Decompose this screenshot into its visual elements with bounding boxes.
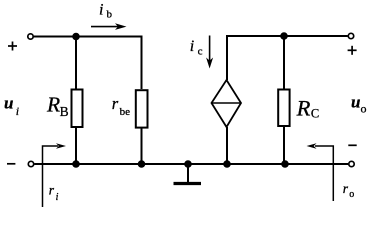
label r_i: [49, 182, 59, 203]
node B (top junction R_B): [72, 33, 80, 41]
label u_i: [4, 94, 19, 118]
node rail junction source bottom: [223, 160, 231, 168]
resistor r_be: [136, 90, 148, 127]
svg-text:o: o: [361, 102, 367, 116]
svg-text:u: u: [351, 93, 360, 112]
terminal input top: [28, 34, 33, 39]
resistor R_C: [278, 90, 289, 127]
svg-text:b: b: [107, 9, 113, 21]
svg-text:C: C: [311, 106, 319, 120]
label i_c: [190, 38, 203, 57]
wire diamond bottom lead: [226, 127, 228, 164]
dependent current source (diamond): [212, 80, 242, 127]
arrow r_i bracket: [43, 143, 67, 207]
svg-text:c: c: [198, 46, 203, 58]
node rail junction ground: [184, 160, 192, 168]
wire R_B bottom lead: [75, 128, 77, 165]
wire top-right rail: [227, 36, 348, 80]
terminal output top: [348, 33, 353, 38]
label r_be: [112, 94, 130, 118]
resistor R_B: [72, 90, 83, 128]
label r_o: [343, 181, 354, 200]
svg-text:r: r: [49, 182, 55, 197]
arrow i_c: [206, 36, 213, 69]
wire R_B top lead: [75, 37, 77, 89]
svg-text:r: r: [343, 181, 349, 196]
ground: [174, 164, 202, 184]
label - input: [7, 163, 15, 165]
svg-text:o: o: [349, 189, 354, 200]
svg-text:i: i: [190, 38, 194, 55]
label + output: [348, 46, 357, 55]
terminal input bottom: [28, 161, 33, 166]
label R_C: [296, 96, 320, 121]
label R_B: [46, 92, 69, 119]
svg-text:i: i: [99, 1, 103, 18]
node rail junction r_be bottom: [138, 160, 146, 168]
node rail junction R_B bottom: [72, 160, 80, 168]
label + input: [8, 42, 17, 51]
wire R_C top lead: [283, 36, 285, 89]
svg-text:r: r: [112, 94, 119, 113]
svg-text:i: i: [56, 192, 59, 203]
label - output: [348, 144, 356, 146]
svg-text:R: R: [46, 92, 60, 116]
svg-text:i: i: [16, 104, 19, 118]
wire top-left rail: [34, 37, 142, 90]
arrow r_o bracket: [307, 143, 334, 201]
wire r_be bottom lead: [141, 128, 143, 164]
svg-text:u: u: [4, 94, 13, 113]
svg-text:R: R: [296, 96, 311, 121]
svg-text:B: B: [60, 104, 69, 119]
wire R_C bottom lead: [283, 127, 285, 164]
label u_o: [351, 93, 367, 116]
node C (top junction R_C): [280, 32, 288, 40]
wire bottom rail: [34, 163, 348, 165]
terminal output bottom: [349, 161, 354, 166]
label i_b: [99, 1, 113, 20]
svg-text:be: be: [120, 106, 131, 118]
node rail junction R_C bottom: [281, 160, 289, 168]
arrow i_b: [91, 23, 127, 30]
